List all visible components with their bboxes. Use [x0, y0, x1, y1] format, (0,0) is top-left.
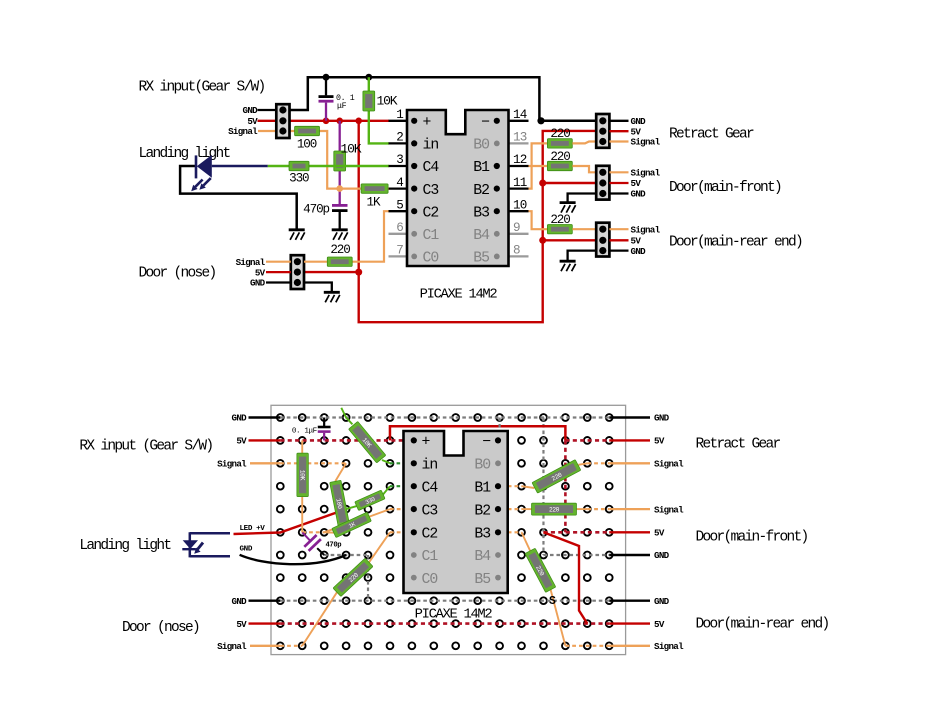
svg-text:10K: 10K	[298, 470, 305, 481]
svg-text:Signal: Signal	[631, 168, 661, 179]
connector J3 Retract Gear header	[596, 114, 609, 148]
board dash C2 to IC	[390, 531, 404, 533]
wire GND label stub RX	[258, 109, 277, 111]
svg-text:Signal: Signal	[654, 459, 684, 470]
svg-text:Landing light: Landing light	[139, 146, 231, 162]
board dash B2 to col11	[508, 508, 522, 510]
resistor board 220 rear	[525, 548, 556, 592]
svg-text:B3: B3	[473, 205, 489, 221]
svg-text:Signal: Signal	[217, 641, 247, 652]
node 5V junction 10K pullup	[336, 118, 343, 125]
wire 220 up to pin5	[352, 211, 389, 262]
board dash B1 to col11	[508, 485, 522, 487]
capacitor C2 lead bottom	[339, 212, 341, 230]
wire 220 front to header	[572, 166, 596, 172]
svg-text:GND: GND	[240, 546, 253, 554]
capacitor C1 0.1uF lead top	[325, 77, 327, 95]
svg-text:C3: C3	[422, 503, 438, 519]
node 5V junction door-rear	[539, 237, 546, 244]
board 5V row6 right	[543, 531, 609, 534]
resistor board 220 nose	[333, 558, 373, 596]
svg-text:220: 220	[330, 243, 350, 257]
board Signal row3 left	[280, 462, 346, 464]
svg-text:10K: 10K	[341, 142, 362, 157]
capacitor C2 470p plate top	[332, 204, 348, 207]
svg-text:GND: GND	[631, 189, 647, 200]
wire GND front label stub	[609, 192, 628, 194]
wire 10K-in to GND rail	[368, 77, 370, 91]
svg-text:1: 1	[396, 108, 403, 122]
wire Signal nose to 220	[304, 261, 327, 263]
board GND drop col10 to minus pin	[499, 418, 501, 441]
svg-text:GND: GND	[232, 596, 248, 607]
wire Signal through 100	[290, 131, 361, 189]
svg-text:C0: C0	[422, 572, 438, 588]
wire Signal right row3	[609, 462, 650, 464]
svg-text:Signal: Signal	[631, 224, 661, 235]
svg-text:C2: C2	[423, 205, 439, 221]
svg-text:13: 13	[513, 131, 527, 145]
wire B3 to 220 rear	[529, 211, 548, 229]
resistor R3 10K pullup	[334, 151, 346, 171]
wire GND nose label stub	[266, 281, 291, 283]
led D1 arrow 1	[195, 180, 202, 187]
wire Signal nose label stub	[266, 261, 291, 263]
svg-text:RX input (Gear S/W): RX input (Gear S/W)	[79, 438, 212, 454]
wire GND rear to ground	[568, 251, 597, 262]
svg-text:3: 3	[396, 153, 403, 167]
perfboard outline	[271, 405, 626, 654]
board dash C3 to IC	[390, 508, 404, 510]
svg-text:Door(main-front): Door(main-front)	[669, 180, 781, 196]
svg-text:GND: GND	[250, 278, 266, 289]
svg-text:Signal: Signal	[236, 257, 266, 268]
connector J5 Door main-rear header	[596, 223, 609, 257]
wire 5V rail to pin1	[290, 120, 389, 122]
wire 5V overpass	[390, 426, 565, 440]
node 5V junction cap	[323, 118, 330, 125]
wire LED anode navy	[212, 165, 268, 168]
svg-text:−: −	[481, 115, 490, 131]
node GND junction at 10K	[365, 74, 372, 81]
wire Signal right row5	[609, 508, 650, 510]
wire 5V door-nose feed	[304, 271, 359, 273]
board Signal row3 right	[587, 462, 609, 464]
svg-text:μF: μF	[337, 102, 347, 111]
resistor R1 100	[295, 126, 320, 135]
board 1K leads	[324, 531, 334, 533]
resistor R6 220 (nose)	[327, 257, 352, 266]
svg-text:C1: C1	[422, 549, 439, 565]
perfboard holes	[277, 414, 284, 421]
wire 5V retract label stub	[609, 130, 628, 132]
board 330 leads	[346, 506, 357, 509]
svg-text:Signal: Signal	[217, 459, 247, 470]
board 10K diag leads	[341, 408, 352, 425]
svg-text:GND: GND	[232, 413, 248, 424]
led D1 board cathode bar	[182, 548, 196, 550]
wire 5V RX label stub	[258, 120, 277, 122]
wire 5V right row2	[609, 439, 650, 441]
board dash C4 to IC	[390, 485, 404, 487]
board signal row11 right	[565, 645, 609, 647]
svg-text:9: 9	[513, 221, 520, 235]
capacitor board 0.1uF	[323, 418, 325, 427]
wire GND right row7	[609, 554, 650, 556]
svg-text:GND: GND	[654, 596, 670, 607]
board 220 rear leads	[522, 532, 531, 551]
wire 5V left row10	[249, 622, 281, 624]
svg-text:100: 100	[297, 137, 317, 151]
board signal row11 left	[280, 645, 302, 647]
board 5V rail row2 left	[280, 439, 403, 442]
board 220 nose leads	[369, 532, 390, 562]
svg-text:B0: B0	[473, 138, 489, 154]
wire GND nose to ground	[304, 283, 332, 293]
IC pin dots	[411, 118, 417, 124]
wire Signal RX label stub	[258, 130, 276, 132]
op-amp U1 board body	[404, 431, 508, 593]
wire GND left row1	[249, 416, 281, 418]
ground symbol door front	[560, 203, 576, 213]
board GND row7 left	[324, 554, 368, 556]
resistor board 10K vert	[297, 453, 309, 497]
svg-text:C2: C2	[422, 527, 438, 543]
svg-text:−: −	[482, 435, 491, 451]
svg-text:GND: GND	[654, 550, 670, 561]
capacitor C1 plate top	[319, 95, 334, 98]
svg-text:C0: C0	[423, 251, 439, 267]
svg-text:+: +	[423, 115, 432, 131]
svg-text:PICAXE 14M2: PICAXE 14M2	[420, 287, 498, 302]
node 5V junction door-front	[539, 180, 546, 187]
wire GND front to ground	[568, 194, 597, 203]
svg-text:S: S	[549, 595, 556, 608]
wire GND right row1	[609, 416, 650, 418]
board GND rail row1	[280, 416, 609, 418]
board GND vertical col12	[542, 418, 544, 556]
wire 10K pullup bottom to 470p	[339, 171, 341, 205]
svg-text:12: 12	[513, 153, 527, 167]
svg-text:5V: 5V	[255, 267, 266, 278]
svg-text:220: 220	[550, 150, 570, 164]
led D1 cathode bar	[195, 155, 198, 178]
svg-text:B4: B4	[474, 549, 491, 565]
wire 5V front label stub	[609, 182, 628, 184]
wire Signal left row3	[250, 462, 280, 464]
resistor board 220 front	[532, 503, 577, 515]
wire 220 retract to header	[572, 142, 596, 144]
svg-text:Signal: Signal	[631, 137, 661, 148]
svg-text:4: 4	[396, 176, 403, 190]
svg-text:Landing light: Landing light	[79, 538, 171, 554]
wire LED +V red	[234, 509, 347, 534]
wire 5V right row6	[609, 531, 650, 533]
svg-text:GND: GND	[631, 246, 647, 257]
node 5V junction branch	[355, 118, 362, 125]
board 10K vert leads	[301, 440, 303, 453]
svg-text:B3: B3	[474, 527, 490, 543]
led D1 board arrow	[197, 543, 203, 550]
board node row6 link col1-col2	[302, 531, 324, 533]
wire Signal left row11	[250, 645, 280, 647]
svg-text:Retract Gear: Retract Gear	[669, 127, 754, 143]
svg-text:5V: 5V	[654, 436, 665, 447]
led D1 board body	[190, 532, 230, 557]
IC pin stubs	[389, 120, 409, 122]
capacitor board 470p plates	[304, 535, 316, 547]
board IC pin dots	[411, 437, 417, 443]
svg-text:5V: 5V	[631, 178, 642, 189]
wire Signal rear label stub	[609, 228, 628, 230]
resistor R4 1K	[361, 184, 388, 193]
svg-text:C4: C4	[422, 480, 439, 496]
svg-text:220: 220	[549, 506, 560, 513]
svg-text:Signal: Signal	[654, 641, 684, 652]
svg-text:Door(main-rear end): Door(main-rear end)	[669, 234, 802, 250]
ground symbol door rear	[560, 261, 576, 271]
svg-text:5V: 5V	[236, 436, 247, 447]
svg-text:14: 14	[513, 108, 527, 122]
wire LED cathode to ground	[180, 166, 297, 230]
svg-text:470p: 470p	[326, 542, 342, 550]
svg-text:11: 11	[513, 176, 527, 190]
resistor board 220 retract	[532, 460, 581, 494]
svg-text:Door(main-front): Door(main-front)	[696, 529, 808, 545]
wire 5V rear label stub	[609, 239, 628, 241]
wire 5V door-front feed	[543, 182, 597, 184]
svg-text:Signal: Signal	[228, 126, 258, 137]
svg-text:B1: B1	[474, 480, 491, 496]
board GND vertical col4	[367, 555, 369, 601]
wire 5V jumper to row10	[543, 532, 587, 623]
capacitor board 470p leads	[302, 532, 311, 542]
svg-text:10: 10	[513, 198, 527, 212]
wire LED GND curve	[240, 555, 346, 564]
svg-text:in: in	[422, 458, 438, 474]
svg-text:Signal: Signal	[654, 504, 684, 515]
svg-text:7: 7	[396, 244, 403, 258]
node signal junction at pullup	[336, 185, 343, 192]
svg-text:220: 220	[550, 127, 570, 141]
wire 10K-in to pin2	[369, 111, 389, 144]
svg-text:B5: B5	[474, 572, 490, 588]
wire 1K to pin4	[388, 188, 389, 190]
board GND row7 right	[543, 554, 609, 556]
board 5V rail row10	[280, 622, 609, 625]
resistor R9 220 (rear)	[547, 225, 572, 234]
svg-text:470p: 470p	[303, 203, 329, 217]
svg-text:B0: B0	[474, 458, 490, 474]
svg-text:330: 330	[289, 171, 309, 185]
svg-text:PICAXE 14M2: PICAXE 14M2	[415, 607, 493, 622]
svg-text:2: 2	[396, 131, 403, 145]
board dash B3 to col11	[508, 531, 522, 533]
wire B1 to 220 retract	[529, 143, 548, 166]
svg-text:C3: C3	[423, 183, 439, 199]
resistor R2 10K vertical	[363, 91, 375, 111]
capacitor C1 plate bottom	[319, 100, 334, 103]
svg-text:10K: 10K	[377, 94, 398, 109]
svg-text:+: +	[422, 435, 431, 451]
board 5V vertical col13	[564, 440, 567, 532]
wire GND left row9	[249, 600, 281, 602]
wire GND top rail	[290, 77, 596, 121]
wire 5V door-rear feed	[543, 239, 597, 241]
svg-text:RX input(Gear S/W): RX input(Gear S/W)	[139, 79, 265, 95]
wire 10K pullup top	[339, 121, 341, 151]
svg-text:GND: GND	[243, 105, 259, 116]
resistor R8 220 (front)	[547, 161, 572, 170]
led D1 triangle	[197, 155, 212, 178]
wire green C4 to 330	[268, 165, 389, 167]
ground symbol LED	[289, 230, 305, 240]
node 5V junction door-nose	[355, 269, 362, 276]
resistor board 1K	[332, 512, 372, 538]
svg-text:Door(main-rear end): Door(main-rear end)	[696, 617, 829, 633]
svg-text:5V: 5V	[654, 528, 665, 539]
wire B2 to 220 front	[529, 166, 548, 189]
wire 5V branch down and across bottom	[359, 121, 597, 322]
svg-text:5V: 5V	[654, 619, 665, 630]
svg-text:LED +V: LED +V	[240, 525, 266, 533]
svg-text:1K: 1K	[367, 196, 381, 210]
wire 220 rear to header	[572, 228, 596, 230]
led D1 board triangle	[183, 540, 198, 549]
svg-text:GND: GND	[654, 413, 670, 424]
svg-text:220: 220	[550, 213, 570, 227]
connector J2 Door nose header	[291, 255, 304, 289]
resistor R7 220 (retract)	[547, 139, 572, 148]
svg-text:B2: B2	[474, 503, 490, 519]
svg-text:B4: B4	[473, 228, 490, 244]
resistor board 330	[355, 490, 385, 510]
board 5V row2 right	[565, 439, 609, 442]
svg-text:C4: C4	[423, 160, 440, 176]
svg-text:B2: B2	[473, 183, 489, 199]
board 220 retract leads	[522, 486, 535, 488]
board 220 front leads	[522, 508, 532, 510]
svg-text:Door (nose): Door (nose)	[139, 266, 216, 282]
svg-text:0. 1μF: 0. 1μF	[292, 427, 318, 435]
svg-text:B1: B1	[473, 160, 490, 176]
node GND junction pin14	[537, 117, 544, 124]
svg-text:Door (nose): Door (nose)	[122, 620, 199, 636]
capacitor C1 lead bottom	[325, 103, 327, 121]
wire 5V nose label stub	[266, 271, 291, 273]
wire Signal right row11	[609, 645, 650, 647]
svg-text:in: in	[423, 138, 439, 154]
svg-text:5: 5	[396, 198, 403, 212]
svg-text:C1: C1	[423, 228, 440, 244]
wire GND retract label stub	[609, 120, 628, 122]
wire GND right row9	[609, 600, 650, 602]
board signal row5 right dash	[587, 508, 609, 510]
led D1 arrow 2	[203, 178, 210, 185]
svg-text:5V: 5V	[236, 619, 247, 630]
wire 5V left row2	[249, 439, 281, 441]
ground symbol under 470p	[332, 230, 348, 240]
wire 5V right row10	[609, 622, 650, 624]
resistor R5 330	[289, 161, 309, 170]
wire Signal retract label stub	[609, 140, 628, 142]
wire Signal front label stub	[609, 171, 628, 173]
connector J4 Door main-front header	[596, 166, 609, 200]
resistor board 100	[330, 480, 350, 526]
board dash in to IC	[390, 462, 404, 464]
resistor board 10K diag	[349, 421, 386, 463]
svg-text:B5: B5	[473, 251, 489, 267]
svg-text:6: 6	[396, 221, 403, 235]
connector J1 RX input header	[276, 104, 289, 138]
board GND rail row9	[280, 600, 609, 602]
svg-text:GND: GND	[631, 116, 647, 127]
node GND junction at cap	[323, 74, 330, 81]
svg-text:8: 8	[513, 244, 520, 258]
wire GND rear label stub	[609, 249, 628, 251]
board 100 leads	[335, 463, 346, 481]
capacitor C2 plate bottom	[332, 209, 348, 212]
ground symbol door nose	[324, 292, 340, 302]
svg-text:Retract Gear: Retract Gear	[696, 437, 781, 453]
op-amp U1 PICAXE 14M2 body	[407, 110, 509, 266]
